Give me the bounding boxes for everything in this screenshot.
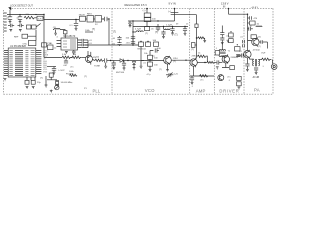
capacitor C15 xyxy=(105,58,111,66)
svg-text:-30 dB: -30 dB xyxy=(252,76,259,79)
wire xyxy=(149,51,151,70)
ground xyxy=(166,70,169,72)
wire xyxy=(28,30,36,40)
ground U2 xyxy=(65,52,68,54)
capacitor C40 xyxy=(31,80,35,84)
wire xyxy=(27,77,35,80)
svg-text:MV2104: MV2104 xyxy=(138,48,147,50)
U1 left pins xyxy=(4,51,8,76)
PLL IC U2 xyxy=(61,35,78,50)
svg-text:(T): (T) xyxy=(145,33,148,35)
node xyxy=(147,41,148,42)
ground xyxy=(133,68,136,70)
section divider VCO/AMP xyxy=(189,8,191,94)
resistor R7 xyxy=(198,55,206,57)
svg-text:REG: REG xyxy=(87,14,92,16)
ground xyxy=(75,28,78,30)
ground xyxy=(26,86,29,88)
node lock detect exit arrow xyxy=(8,7,11,10)
ground xyxy=(50,91,53,93)
U1 right pins xyxy=(36,51,42,74)
driver lower parts xyxy=(218,75,224,81)
capacitor C36 xyxy=(72,50,76,55)
wire 9V rail xyxy=(44,15,79,20)
tune line chain xyxy=(93,60,96,61)
svg-text:AMP: AMP xyxy=(196,89,206,94)
capacitor C30 xyxy=(259,40,267,44)
resistor R21 xyxy=(22,34,28,38)
capacitor C45 xyxy=(63,59,68,67)
capacitor C28 xyxy=(243,40,245,43)
transistor Q1 xyxy=(86,52,97,65)
ground xyxy=(227,40,230,42)
svg-text:(T): (T) xyxy=(191,49,194,51)
capacitor C9 xyxy=(113,42,122,47)
svg-text:TUNE: TUNE xyxy=(94,66,100,68)
ground xyxy=(53,72,56,74)
inductor L1 xyxy=(133,29,143,32)
ground xyxy=(171,33,174,35)
wire xyxy=(43,20,45,58)
svg-text:(T): (T) xyxy=(173,61,176,63)
ground xyxy=(184,33,187,35)
ground xyxy=(191,82,194,84)
wire tune rail xyxy=(85,44,139,46)
svg-text:XTAL: XTAL xyxy=(47,42,53,45)
regulator U4 xyxy=(87,14,94,22)
capacitor C7 xyxy=(126,41,136,46)
ground xyxy=(238,87,241,89)
resistor R3 xyxy=(144,18,156,22)
wire lock detect xyxy=(7,10,44,15)
resistor R15 low pass xyxy=(262,58,272,60)
node 13.8V entry xyxy=(228,8,230,10)
varactor D2 xyxy=(138,42,147,50)
resistor R23 xyxy=(191,43,197,52)
ground xyxy=(140,66,143,68)
resistor R25 xyxy=(235,44,240,51)
series element B4 xyxy=(49,73,53,77)
trimmer C41 xyxy=(55,85,59,89)
PA transistor Q5 xyxy=(252,38,259,47)
svg-text:13.8 V: 13.8 V xyxy=(221,2,229,6)
capacitor C11 xyxy=(151,24,161,31)
svg-text:J2 50Ω: J2 50Ω xyxy=(253,50,260,52)
diode D5 xyxy=(132,61,135,68)
svg-text:J310: J310 xyxy=(173,58,179,60)
wire xyxy=(248,22,250,24)
wire supply drop AMP xyxy=(196,15,198,59)
vertical feed x133 xyxy=(132,21,134,46)
VCO divider column: capacitor C18 xyxy=(150,48,161,53)
ground xyxy=(203,40,206,42)
board outline dashed top xyxy=(9,7,273,9)
trimmer C21 xyxy=(166,73,179,78)
ground xyxy=(221,42,224,44)
svg-text:MV2104: MV2104 xyxy=(116,72,125,74)
capacitor C22 xyxy=(190,76,194,82)
svg-text:(T): (T) xyxy=(84,76,87,78)
wire supply drop PA xyxy=(247,14,249,50)
capacitor C17 xyxy=(122,61,126,68)
svg-text:(T): (T) xyxy=(153,56,156,58)
wire driver emitter xyxy=(222,63,229,68)
U2 right pins xyxy=(78,40,82,48)
resistor R19 xyxy=(27,25,31,29)
crystal Y2 xyxy=(55,81,72,85)
capacitor C46 xyxy=(161,31,165,37)
svg-text:REF: REF xyxy=(14,37,19,39)
ground xyxy=(32,86,35,88)
ground xyxy=(19,30,22,32)
connector P1 pin stubs xyxy=(4,13,7,31)
ground xyxy=(9,22,12,24)
svg-text:(T): (T) xyxy=(175,34,178,37)
resistor R22 xyxy=(69,71,77,76)
output jack J2 xyxy=(271,60,277,70)
ground xyxy=(104,66,107,68)
wire VCO tank rail xyxy=(133,26,188,28)
svg-text:DRIVER: DRIVER xyxy=(219,89,239,94)
regulator U3 78L09 xyxy=(79,14,86,21)
wire to R2 xyxy=(34,17,44,19)
wire 13.8V rail xyxy=(229,13,248,15)
inductor L6 xyxy=(53,27,61,30)
wire AMP out xyxy=(197,62,207,64)
PA transformer T2 xyxy=(249,59,262,66)
svg-text:9 V IN: 9 V IN xyxy=(169,2,176,6)
wire xyxy=(86,18,105,20)
wire xyxy=(141,46,164,66)
capacitor C13 xyxy=(183,27,187,34)
section divider DRIVER/PA xyxy=(243,8,245,94)
wire xyxy=(47,77,57,80)
wire AMP bias row xyxy=(190,75,214,77)
capacitor C8 xyxy=(113,36,122,41)
ground under U1 xyxy=(4,79,7,81)
board outline dashed bottom xyxy=(4,93,274,95)
ground xyxy=(123,68,126,70)
svg-text:OUT: OUT xyxy=(261,52,266,54)
transformer T1 xyxy=(219,50,231,57)
diode D6 xyxy=(129,21,132,27)
U2 left pins xyxy=(57,41,62,47)
node xyxy=(127,60,128,61)
wire xyxy=(56,30,66,34)
svg-text:(T): (T) xyxy=(155,31,158,34)
inductor L4 choke xyxy=(256,26,262,27)
capacitor C12 xyxy=(170,27,174,33)
wire 9V rail to AMP xyxy=(171,14,197,16)
svg-text:IN: IN xyxy=(223,7,226,9)
svg-text:REGULATED 9.5 V: REGULATED 9.5 V xyxy=(125,3,148,7)
capacitor C32 emitter xyxy=(245,58,249,69)
resistor R8 xyxy=(197,37,205,39)
section divider AMP/DRIVER xyxy=(213,8,215,94)
svg-text:(T): (T) xyxy=(92,28,95,31)
U1 right pin labels xyxy=(43,50,49,73)
resistor R24 xyxy=(42,43,47,47)
loop filter: wire from PLL xyxy=(44,57,62,59)
capacitor C2 xyxy=(16,15,22,22)
capacitor C4 xyxy=(103,17,110,21)
wire xyxy=(47,66,56,68)
capacitor C39 xyxy=(25,80,29,84)
section divider PLL/VCO xyxy=(111,8,113,94)
resistor R20 xyxy=(32,25,36,29)
node xyxy=(247,14,248,15)
transistor Q2 VCO xyxy=(164,56,179,65)
resistor R10 xyxy=(229,31,234,37)
wire xyxy=(45,76,47,85)
capacitor C24 xyxy=(220,31,224,36)
wire xyxy=(111,60,119,62)
wire 9V entry xyxy=(146,8,148,21)
ground xyxy=(255,72,258,74)
svg-text:(T): (T) xyxy=(71,67,74,69)
MCU U1 xyxy=(8,45,36,77)
capacitor C43 xyxy=(254,68,258,72)
capacitor C33 xyxy=(82,39,88,41)
capacitor C1 xyxy=(6,15,12,22)
capacitor C26 xyxy=(244,27,253,32)
ground xyxy=(162,36,165,38)
capacitor C6 xyxy=(126,36,136,41)
svg-text:4.7µH: 4.7µH xyxy=(135,29,141,31)
resistor R14 xyxy=(251,35,262,39)
PA transistor Q6 xyxy=(244,50,251,59)
wire driver collector xyxy=(222,26,227,57)
DRIVER input cap C23 xyxy=(214,60,222,64)
capacitor C5 electrolytic xyxy=(171,12,179,14)
wire xyxy=(82,57,86,59)
capacitor C29 xyxy=(243,44,245,47)
capacitor C38 xyxy=(18,24,24,28)
zener D1 xyxy=(144,13,151,17)
AMP transistor Q3 xyxy=(190,55,200,67)
resistor R16 xyxy=(237,76,242,80)
block left of U2 xyxy=(47,42,57,50)
svg-text:(T): (T) xyxy=(159,69,162,71)
svg-text:(+): (+) xyxy=(168,11,171,13)
ground xyxy=(246,69,249,71)
node xyxy=(43,14,44,15)
ground xyxy=(112,67,115,69)
wire regulated feed down xyxy=(108,19,110,45)
board outline dashed right xyxy=(272,8,274,94)
svg-text:+13.8 V: +13.8 V xyxy=(251,7,259,9)
node xyxy=(196,37,197,38)
wire xyxy=(50,90,52,91)
ground xyxy=(149,69,152,71)
ground xyxy=(216,67,219,69)
resistor R18 xyxy=(85,28,95,32)
board outline dashed left xyxy=(3,10,5,94)
ferrite bead FB1 xyxy=(195,24,198,28)
svg-text:(T): (T) xyxy=(40,78,43,80)
svg-text:U1 PIC16F628: U1 PIC16F628 xyxy=(10,45,26,48)
wire xyxy=(128,60,134,62)
capacitor C42 xyxy=(248,16,258,20)
wire xyxy=(266,42,268,49)
inductor L2 xyxy=(163,24,172,29)
ground xyxy=(9,30,12,32)
regulator U5 xyxy=(95,16,102,26)
capacitor C44 xyxy=(236,55,240,57)
wire PA base xyxy=(248,41,252,42)
varactor D3 xyxy=(146,42,151,46)
capacitor C20 xyxy=(148,62,159,66)
resistor R27 xyxy=(207,61,214,63)
node xyxy=(71,57,72,58)
ground xyxy=(54,33,57,35)
capacitor C31 xyxy=(237,51,244,58)
capacitor C14 xyxy=(52,67,56,73)
svg-text:1.2µH: 1.2µH xyxy=(166,24,172,26)
svg-text:(T): (T) xyxy=(201,79,204,81)
svg-text:LOCK DETECT OUT: LOCK DETECT OUT xyxy=(10,5,33,8)
svg-text:PA: PA xyxy=(254,87,260,92)
resistor R12 xyxy=(230,66,235,70)
capacitor C37 xyxy=(8,24,14,28)
svg-text:(T): (T) xyxy=(228,77,231,79)
capacitor C35 xyxy=(82,44,88,46)
svg-text:VSS: VSS xyxy=(43,71,48,73)
svg-text:(T): (T) xyxy=(113,30,116,33)
resistor R9 xyxy=(200,75,208,77)
resistor R1 xyxy=(24,16,34,19)
svg-text:16.000 MHz: 16.000 MHz xyxy=(61,82,73,84)
resistor R5 xyxy=(70,56,82,58)
capacitor C16 xyxy=(112,61,116,68)
wire xyxy=(167,64,169,70)
diode D4 xyxy=(118,59,128,63)
svg-text:78L09: 78L09 xyxy=(79,14,86,16)
crystal Y1 xyxy=(63,31,67,39)
resistor R11 xyxy=(229,39,234,43)
resistor R28 xyxy=(145,22,150,36)
resistor R2 xyxy=(37,16,43,20)
svg-text:LOOP: LOOP xyxy=(59,70,66,72)
wire VCO out xyxy=(171,59,189,61)
resistor R4 xyxy=(62,56,70,58)
capacitor C10 xyxy=(153,40,159,47)
wire 9V entry 2 xyxy=(174,8,176,21)
svg-text:2N3866: 2N3866 xyxy=(231,57,239,59)
wire feedback xyxy=(206,56,208,62)
wire xyxy=(102,60,105,62)
resistor R13 xyxy=(250,21,260,25)
wire supply drop DRIVER xyxy=(228,8,230,14)
wire diag xyxy=(36,24,41,28)
resistor R6 xyxy=(94,56,103,67)
wire xyxy=(82,40,88,58)
ground xyxy=(45,85,48,87)
svg-text:(T): (T) xyxy=(258,46,261,48)
wire xyxy=(204,38,206,40)
wire VCO supply rail xyxy=(128,20,175,22)
capacitor C3 xyxy=(70,19,79,28)
svg-text:VCO: VCO xyxy=(145,88,155,93)
capacitor C34 xyxy=(82,41,88,43)
capacitor C19 xyxy=(148,55,159,59)
node xyxy=(110,60,111,61)
ground xyxy=(19,22,22,24)
block osc xyxy=(23,40,36,45)
capacitor C25 xyxy=(220,36,224,42)
resistor R17 xyxy=(237,82,242,86)
node xyxy=(140,41,141,42)
resistor R26 xyxy=(215,51,219,55)
svg-text:PLL: PLL xyxy=(93,88,101,93)
svg-text:(+): (+) xyxy=(143,10,146,12)
transistor Q4 DRIVER xyxy=(222,55,239,64)
wire into VCO column xyxy=(134,60,144,62)
wire AMP emitter xyxy=(193,66,195,76)
